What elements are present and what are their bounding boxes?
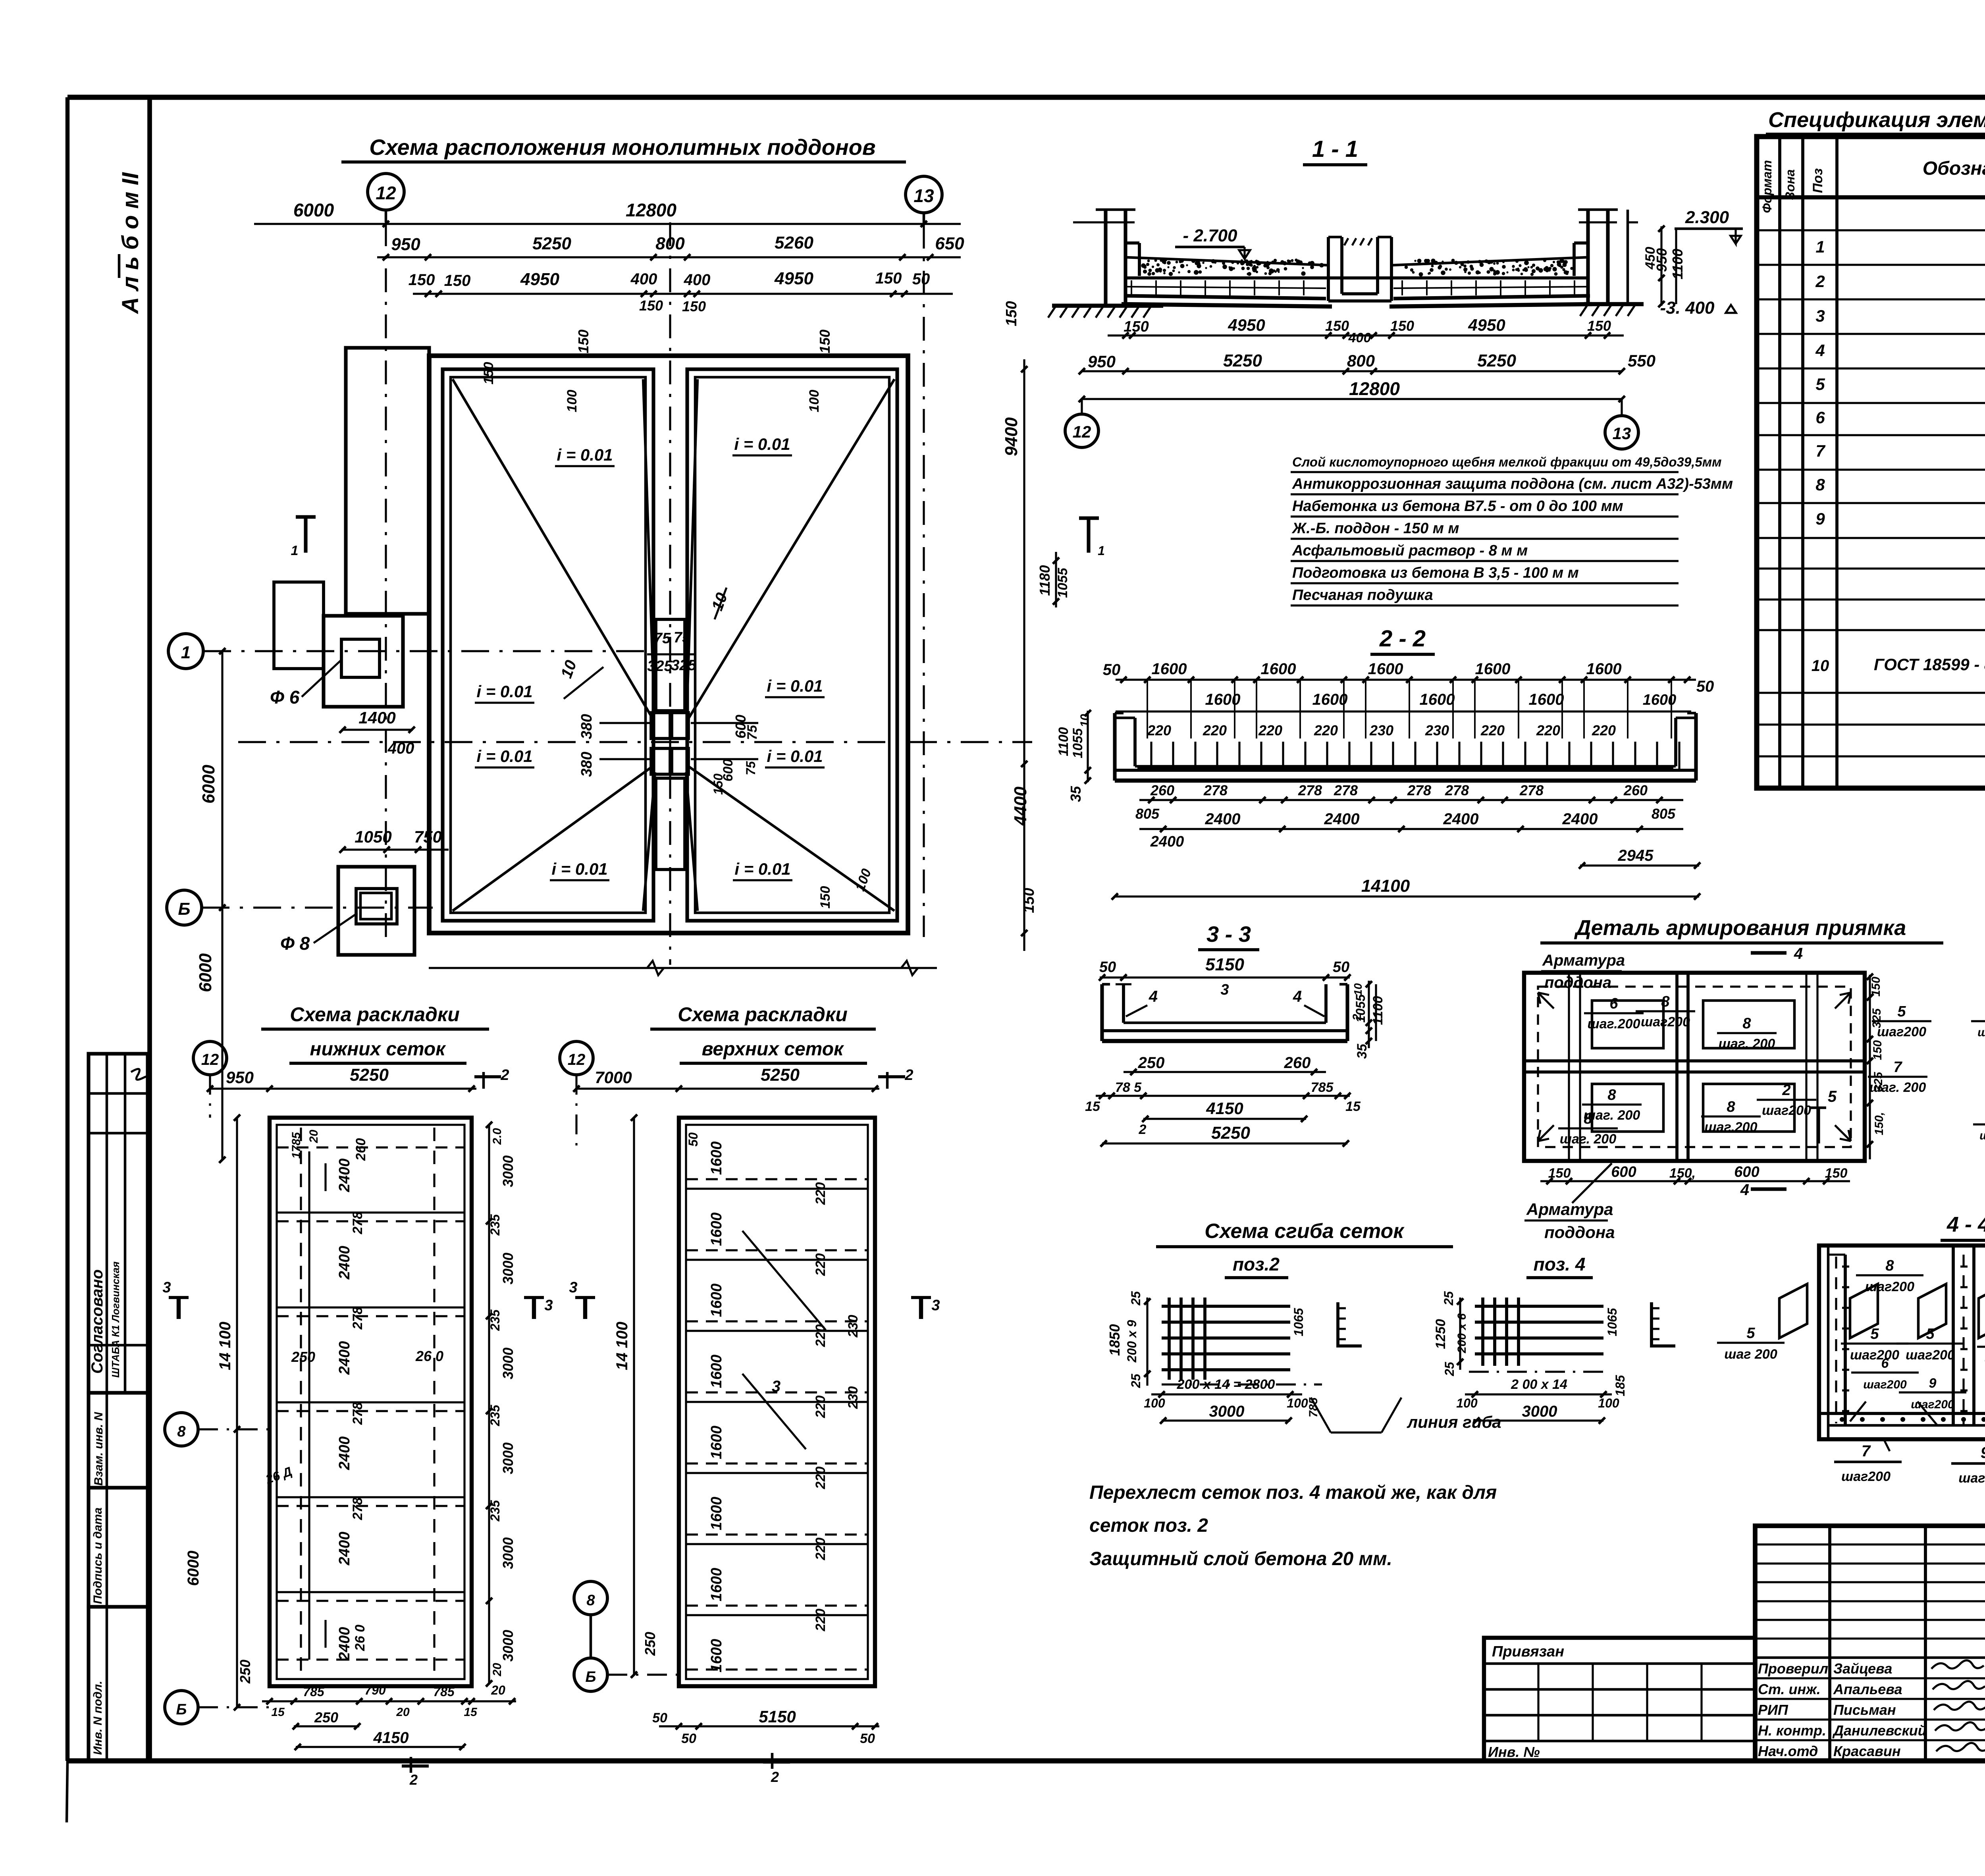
svg-text:15: 15	[464, 1706, 478, 1719]
svg-text:785: 785	[433, 1685, 455, 1699]
spec table grid	[1757, 137, 1985, 788]
left pallet outer rect	[443, 369, 653, 921]
svg-text:5: 5	[1926, 1326, 1935, 1342]
svg-text:185: 185	[1613, 1375, 1627, 1396]
svg-text:2400: 2400	[336, 1341, 353, 1375]
svg-text:2: 2	[1782, 1082, 1790, 1099]
svg-text:1600: 1600	[708, 1284, 725, 1317]
svg-text:поз.2: поз.2	[1233, 1254, 1280, 1274]
svg-text:150: 150	[409, 271, 435, 289]
detail priyamka section mark 4 top	[1751, 951, 1786, 954]
plan center axis line horizontal	[238, 741, 1032, 743]
svg-text:Арматура: Арматура	[1526, 1200, 1613, 1219]
svg-text:25: 25	[1442, 1291, 1456, 1306]
svg-text:верхних сеток: верхних сеток	[702, 1039, 844, 1060]
svg-text:2400: 2400	[1205, 810, 1241, 828]
scan artifact left frame extension	[67, 1761, 67, 1822]
svg-text:1100: 1100	[1370, 996, 1386, 1025]
svg-text:230: 230	[1369, 722, 1393, 738]
svg-text:50: 50	[1696, 678, 1714, 695]
svg-text:шаг.200: шаг.200	[1704, 1120, 1757, 1135]
plan right dim 1180 1055	[1055, 552, 1057, 607]
svg-text:4950: 4950	[1468, 316, 1505, 334]
svg-text:1600: 1600	[708, 1141, 725, 1175]
svg-text:790: 790	[364, 1683, 386, 1697]
svg-text:Спецификация элементов мон: Спецификация элементов монолитного поддо…	[1768, 108, 1985, 132]
left pallet diagonals to pit	[453, 379, 653, 719]
svg-text:1600: 1600	[1205, 691, 1241, 708]
section 1-1 ground line with hatch	[1048, 304, 1644, 318]
svg-text:i = 0.01: i = 0.01	[767, 747, 823, 765]
svg-text:Инв. №: Инв. №	[1488, 1744, 1540, 1760]
svg-text:1600: 1600	[1475, 660, 1511, 678]
svg-text:1600: 1600	[708, 1426, 725, 1460]
svg-text:2: 2	[1815, 272, 1825, 291]
svg-text:950: 950	[1654, 248, 1670, 272]
axis circle B raskladka up	[574, 1658, 607, 1691]
svg-text:4: 4	[1293, 988, 1302, 1005]
svg-text:14100: 14100	[1361, 876, 1410, 896]
svg-text:8: 8	[1742, 1015, 1751, 1032]
svg-text:4950: 4950	[520, 270, 559, 289]
poz4 mesh sketch	[1469, 1298, 1608, 1372]
svg-text:Апальева: Апальева	[1833, 1681, 1902, 1697]
svg-text:150: 150	[1869, 977, 1883, 997]
svg-text:20: 20	[491, 1683, 505, 1697]
svg-text:3: 3	[931, 1297, 940, 1314]
svg-text:50: 50	[912, 270, 930, 288]
raskladka low top dims	[210, 1087, 476, 1089]
svg-text:50: 50	[686, 1132, 700, 1147]
svg-text:325: 325	[647, 658, 673, 675]
svg-text:26 0: 26 0	[415, 1348, 443, 1364]
svg-text:2: 2	[409, 1772, 418, 1788]
raskladka low left vertical dims	[236, 1118, 238, 1707]
svg-text:150: 150	[1021, 888, 1037, 913]
svg-text:220: 220	[813, 1538, 828, 1561]
section 1-1 right wall	[1578, 210, 1638, 304]
svg-text:220: 220	[1592, 722, 1616, 738]
svg-text:5150: 5150	[1205, 955, 1244, 974]
svg-text:1100: 1100	[1669, 249, 1686, 279]
svg-text:220: 220	[813, 1325, 828, 1348]
svg-text:Арматура: Арматура	[1542, 952, 1625, 969]
svg-text:5250: 5250	[532, 234, 571, 253]
section 3-3 bottom dim 250 260	[1124, 1071, 1326, 1073]
svg-text:220: 220	[813, 1253, 828, 1276]
svg-text:1065: 1065	[1605, 1307, 1619, 1336]
section 1-1 right dims 450 950 1100	[1660, 226, 1662, 306]
svg-text:400: 400	[630, 270, 657, 288]
svg-text:150,: 150,	[1873, 1112, 1886, 1135]
svg-text:6: 6	[1815, 408, 1825, 427]
plan axis line 13 vertical	[923, 225, 925, 937]
svg-text:поз. 4: поз. 4	[1534, 1254, 1586, 1274]
svg-text:Зайцева: Зайцева	[1833, 1660, 1892, 1677]
detail priyamka outer rect	[1524, 973, 1865, 1161]
svg-text:950: 950	[226, 1068, 254, 1087]
svg-text:Слой кислотоупорного щебня мел: Слой кислотоупорного щебня мелкой фракци…	[1292, 455, 1722, 469]
svg-text:20: 20	[307, 1130, 320, 1143]
axis circle 13 plan	[906, 176, 942, 213]
svg-text:278: 278	[350, 1307, 365, 1330]
svg-text:50: 50	[652, 1710, 667, 1726]
svg-text:6000: 6000	[293, 200, 334, 220]
svg-text:235: 235	[488, 1404, 502, 1427]
svg-text:7: 7	[1893, 1059, 1902, 1076]
svg-text:7000: 7000	[595, 1068, 632, 1087]
axis circle 12 plan	[368, 174, 404, 210]
svg-text:7: 7	[1862, 1442, 1871, 1460]
svg-text:26 0: 26 0	[353, 1625, 368, 1651]
svg-text:5250: 5250	[1223, 351, 1262, 370]
svg-text:1050: 1050	[355, 827, 391, 846]
svg-text:3000: 3000	[1522, 1403, 1557, 1420]
svg-text:9400: 9400	[1002, 417, 1021, 456]
svg-text:2: 2	[904, 1067, 913, 1084]
section mark T1 left of plan	[296, 515, 316, 519]
svg-text:1600: 1600	[708, 1213, 725, 1246]
svg-text:150: 150	[875, 270, 902, 287]
svg-text:230: 230	[1425, 722, 1449, 738]
svg-text:7: 7	[1815, 442, 1825, 460]
svg-text:шаг200: шаг200	[1877, 1024, 1926, 1039]
svg-text:260: 260	[1150, 782, 1174, 798]
section 2-2 channel profile	[1115, 713, 1696, 781]
svg-text:150: 150	[575, 330, 592, 353]
svg-text:Привязан: Привязан	[1492, 1643, 1564, 1660]
svg-text:100: 100	[1598, 1396, 1619, 1410]
svg-text:2945: 2945	[1618, 847, 1654, 864]
svg-text:20: 20	[491, 1663, 504, 1677]
svg-text:200 х 6: 200 х 6	[1455, 1313, 1469, 1353]
svg-text:5: 5	[1828, 1088, 1837, 1105]
svg-text:3000: 3000	[1209, 1403, 1245, 1420]
raskladka up left vertical dim	[633, 1118, 635, 1675]
title block signature table	[1755, 1526, 1985, 1761]
section 3-3 dim 4150	[1143, 1118, 1306, 1120]
plan right vertical dim 9400 4400	[1023, 359, 1025, 951]
section marks 3 left diagram	[177, 1298, 181, 1319]
axis circle B raskladka low	[165, 1691, 198, 1724]
svg-text:278: 278	[350, 1402, 365, 1425]
svg-text:220: 220	[813, 1467, 828, 1490]
svg-text:шаг 200: шаг 200	[1979, 1129, 1985, 1142]
section 1-1 left wall	[1073, 210, 1135, 306]
svg-text:50: 50	[1333, 959, 1349, 976]
detail priyamka bottom dims	[1540, 1180, 1850, 1182]
svg-text:1: 1	[1815, 237, 1825, 256]
section 1-1 dim row 12800	[1082, 398, 1622, 400]
svg-text:150: 150	[1325, 318, 1349, 334]
svg-text:1600: 1600	[1368, 660, 1403, 678]
svg-text:75: 75	[745, 725, 760, 740]
svg-text:278: 278	[1334, 782, 1358, 798]
svg-text:78 5: 78 5	[1115, 1080, 1142, 1095]
plan top dim row 6000-12800	[254, 223, 961, 225]
svg-text:950: 950	[391, 235, 420, 254]
svg-text:4150: 4150	[1206, 1099, 1243, 1118]
svg-text:шаг 200: шаг 200	[1958, 1471, 1985, 1486]
section 4-4 rebar dots bottom	[1840, 1417, 1985, 1422]
svg-text:Подпись и дата: Подпись и дата	[91, 1508, 104, 1604]
raskladka low inner rect	[277, 1125, 464, 1679]
svg-text:6: 6	[1609, 995, 1618, 1012]
svg-text:10: 10	[1812, 657, 1829, 675]
section 1-1 gravel speckle fill	[1141, 258, 1573, 276]
svg-text:5: 5	[1897, 1003, 1906, 1020]
svg-text:230: 230	[846, 1386, 861, 1409]
svg-text:150: 150	[818, 886, 833, 909]
svg-text:8: 8	[1607, 1087, 1616, 1103]
svg-text:2400: 2400	[1324, 810, 1360, 828]
raskladka low bottom dims	[262, 1700, 516, 1702]
svg-text:Взам. инв. N: Взам. инв. N	[92, 1411, 105, 1486]
svg-text:4950: 4950	[774, 269, 813, 288]
svg-text:250: 250	[1138, 1054, 1165, 1072]
svg-text:5250: 5250	[1477, 351, 1516, 370]
svg-text:1785: 1785	[290, 1132, 303, 1159]
svg-text:325: 325	[1870, 1008, 1883, 1028]
svg-text:1850: 1850	[1106, 1324, 1123, 1356]
svg-text:i = 0.01: i = 0.01	[557, 445, 613, 464]
svg-text:600: 600	[1734, 1164, 1759, 1180]
svg-text:Песчаная подушка: Песчаная подушка	[1292, 587, 1433, 603]
right pallet outer rect	[687, 369, 897, 921]
svg-text:785: 785	[303, 1685, 325, 1699]
svg-text:75: 75	[654, 630, 671, 647]
B axis inner square	[360, 893, 391, 919]
svg-text:Асфальтовый раствор -: Асфальтовый раствор - 8 м м	[1292, 542, 1528, 559]
svg-text:15: 15	[1345, 1099, 1361, 1114]
svg-text:10: 10	[1352, 983, 1364, 996]
section marks 3 right diagram	[583, 1298, 587, 1319]
svg-text:12800: 12800	[626, 200, 676, 220]
svg-text:1 - 1: 1 - 1	[1312, 136, 1358, 162]
svg-text:i = 0.01: i = 0.01	[767, 677, 823, 695]
svg-text:i = 0.01: i = 0.01	[551, 860, 607, 878]
pit square A2	[672, 713, 688, 738]
svg-text:4: 4	[1149, 988, 1158, 1005]
svg-text:3: 3	[772, 1378, 781, 1395]
detail priyamka section mark 5 left	[1816, 1108, 1820, 1143]
svg-text:5: 5	[1746, 1325, 1755, 1342]
svg-text:8: 8	[1584, 1111, 1592, 1127]
section mark T1 right	[1079, 516, 1099, 520]
svg-text:Письман: Письман	[1833, 1702, 1896, 1718]
svg-text:1600: 1600	[708, 1355, 725, 1388]
svg-text:785: 785	[1311, 1080, 1334, 1095]
svg-text:Защитный слой бетона 20: Защитный слой бетона 20 мм.	[1089, 1548, 1392, 1569]
svg-text:250: 250	[237, 1660, 253, 1684]
dim 1400 400	[341, 729, 413, 731]
axis B line	[202, 906, 433, 908]
svg-text:6: 6	[1881, 1356, 1889, 1371]
svg-text:950: 950	[1088, 352, 1116, 371]
svg-text:3: 3	[1815, 307, 1825, 325]
svg-text:Схема раскладки: Схема раскладки	[290, 1003, 460, 1026]
svg-text:50: 50	[681, 1731, 696, 1746]
B axis inner box	[356, 889, 397, 924]
svg-text:12: 12	[201, 1051, 219, 1068]
svg-text:150: 150	[1548, 1166, 1571, 1181]
raskladka up inner rect	[686, 1125, 868, 1679]
svg-text:400: 400	[684, 271, 711, 289]
section 4-4 walls inner lines	[1819, 1246, 1985, 1439]
left pallet inner rect	[451, 377, 646, 913]
svg-text:150: 150	[682, 298, 706, 314]
svg-text:4400: 4400	[1011, 787, 1030, 826]
svg-text:50: 50	[1103, 661, 1121, 679]
sidebar box podpis i data	[89, 1488, 148, 1607]
svg-text:150: 150	[639, 297, 663, 314]
title block signatures squiggles	[1931, 1660, 1984, 1669]
svg-text:Поз: Поз	[1810, 168, 1825, 193]
svg-text:Обозначение: Обозначение	[1923, 158, 1985, 179]
svg-text:550: 550	[1628, 351, 1655, 370]
svg-text:220: 220	[1258, 722, 1282, 738]
svg-text:3 - 3: 3 - 3	[1206, 922, 1251, 947]
axis circle 12 of section 1-1	[1065, 414, 1098, 447]
svg-text:230: 230	[846, 1315, 861, 1338]
svg-text:Антикоррозионная защита поддон: Антикоррозионная защита поддона (см. лис…	[1292, 476, 1733, 492]
svg-text:Ст. инж.: Ст. инж.	[1758, 1681, 1821, 1697]
svg-text:100: 100	[807, 390, 822, 413]
svg-text:150: 150	[1587, 318, 1611, 334]
svg-text:15: 15	[271, 1706, 285, 1719]
svg-text:2400: 2400	[336, 1159, 353, 1193]
svg-text:1600: 1600	[1586, 660, 1622, 678]
svg-text:805: 805	[1135, 806, 1160, 822]
svg-text:100: 100	[1144, 1396, 1165, 1410]
svg-text:8: 8	[586, 1592, 595, 1609]
raskladka low outer rect	[270, 1118, 472, 1686]
svg-text:150: 150	[1825, 1166, 1848, 1181]
svg-text:5: 5	[1815, 375, 1825, 393]
detail priyamka inner dashed perimeter	[1538, 987, 1851, 1147]
svg-text:380: 380	[578, 752, 595, 777]
svg-text:3000: 3000	[500, 1537, 516, 1569]
svg-text:i = 0.01: i = 0.01	[734, 860, 790, 878]
raskladka up top dims	[576, 1087, 879, 1089]
svg-text:3000: 3000	[500, 1442, 516, 1474]
svg-text:РИП: РИП	[1758, 1702, 1788, 1718]
axis circle 13 of section 1-1	[1605, 416, 1638, 449]
svg-text:6000: 6000	[185, 1551, 202, 1586]
svg-text:150: 150	[1871, 1040, 1884, 1060]
svg-text:шаг200: шаг200	[1906, 1348, 1955, 1363]
svg-text:150: 150	[1124, 318, 1149, 335]
section 3-3 top dims	[1100, 976, 1350, 978]
svg-text:25: 25	[1442, 1361, 1457, 1377]
pit square A1	[651, 713, 670, 738]
raskladka up bottom dims	[659, 1725, 879, 1727]
svg-text:2.0: 2.0	[491, 1128, 504, 1145]
section 2-2 dim 14100	[1115, 895, 1699, 897]
svg-text:150: 150	[1003, 301, 1020, 326]
svg-text:1600: 1600	[1152, 660, 1187, 678]
svg-text:2: 2	[1351, 1014, 1364, 1021]
svg-text:1: 1	[291, 543, 299, 558]
svg-text:1400: 1400	[358, 708, 395, 727]
svg-text:1250: 1250	[1433, 1319, 1448, 1349]
svg-text:Проверил: Проверил	[1758, 1660, 1828, 1677]
svg-text:Б: Б	[178, 899, 190, 919]
svg-text:14 100: 14 100	[216, 1322, 234, 1370]
svg-text:12: 12	[568, 1051, 586, 1068]
svg-text:ГОСТ 18599 - 83: ГОСТ 18599 - 83	[1874, 655, 1985, 674]
svg-text:100: 100	[1287, 1396, 1308, 1410]
section 4-4 outer rect	[1819, 1246, 1985, 1439]
svg-text:3000: 3000	[500, 1253, 516, 1284]
raskladka low inner rows	[277, 1147, 464, 1660]
svg-text:Схема расположения монолитны: Схема расположения монолитных поддонов	[369, 135, 875, 160]
pit upper slot rect	[656, 619, 685, 711]
section 2-2 bottom dim row 260-278	[1139, 799, 1683, 801]
liniya giba funnel	[1311, 1398, 1331, 1433]
svg-text:2400: 2400	[336, 1246, 353, 1280]
svg-text:сеток поз. 2: сеток поз. 2	[1089, 1515, 1208, 1536]
svg-text:6000: 6000	[196, 953, 215, 992]
svg-text:1600: 1600	[1643, 692, 1677, 708]
pit leader 10 lower	[564, 667, 603, 699]
svg-text:1600: 1600	[708, 1568, 725, 1602]
section 2-2 top dim lines	[1116, 677, 1696, 738]
svg-text:100: 100	[1456, 1396, 1478, 1410]
svg-text:325: 325	[671, 657, 696, 674]
svg-text:шаг200: шаг200	[1641, 1014, 1690, 1030]
svg-text:10: 10	[1078, 714, 1091, 727]
plan bottom break line	[429, 967, 937, 969]
svg-text:3000: 3000	[500, 1348, 516, 1379]
svg-text:278: 278	[350, 1498, 365, 1521]
svg-text:325: 325	[1872, 1072, 1885, 1092]
detail priyamka walls	[1524, 973, 1865, 1161]
svg-text:шаг 200: шаг 200	[1977, 1026, 1985, 1039]
svg-text:1: 1	[1098, 544, 1105, 558]
section 3-3 channel	[1102, 984, 1347, 1041]
svg-text:1600: 1600	[1529, 691, 1564, 708]
pit leader 10 upper	[715, 588, 727, 619]
axis circle V raskladka low	[165, 1413, 198, 1446]
svg-text:12800: 12800	[1349, 378, 1400, 399]
pit lower slot rect	[656, 778, 685, 870]
svg-text:12: 12	[376, 183, 396, 203]
svg-text:поддона: поддона	[1544, 1223, 1615, 1242]
svg-text:13: 13	[1613, 424, 1631, 443]
svg-text:235: 235	[488, 1214, 502, 1236]
svg-text:5250: 5250	[1211, 1123, 1250, 1143]
svg-text:2: 2	[771, 1769, 779, 1785]
svg-text:Подготовка из бетона В 3,: Подготовка из бетона В 3,5 - 100 м м	[1292, 565, 1579, 581]
svg-text:220: 220	[813, 1609, 828, 1632]
svg-text:4: 4	[1740, 1181, 1749, 1199]
axis circle V raskladka up	[574, 1581, 607, 1615]
svg-text:3000: 3000	[500, 1155, 516, 1187]
pit square B2	[672, 748, 688, 774]
svg-text:шаг. 200: шаг. 200	[1719, 1036, 1775, 1051]
svg-text:4950: 4950	[1228, 316, 1265, 334]
svg-text:75: 75	[744, 761, 758, 775]
svg-text:-3. 400: -3. 400	[1660, 298, 1715, 318]
detail priyamka section mark 4 bottom	[1751, 1187, 1786, 1191]
svg-text:шаг200: шаг200	[1911, 1398, 1954, 1411]
svg-text:235: 235	[488, 1500, 502, 1522]
svg-text:Нач.отд: Нач.отд	[1758, 1743, 1818, 1759]
svg-text:8: 8	[1815, 475, 1825, 494]
svg-text:3000: 3000	[500, 1630, 516, 1662]
svg-text:220: 220	[813, 1182, 828, 1205]
